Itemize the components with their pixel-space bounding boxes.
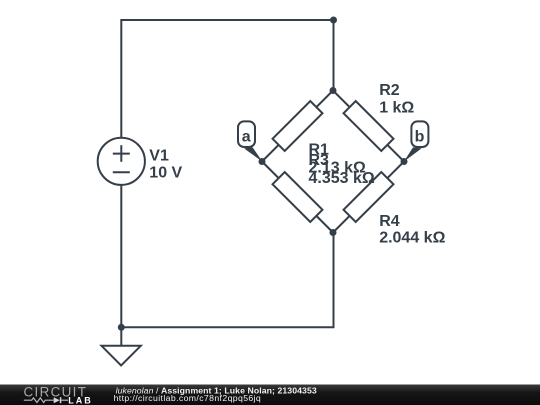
svg-text:a: a [242, 129, 251, 146]
svg-text:b: b [415, 129, 425, 146]
svg-text:LAB: LAB [68, 396, 93, 405]
svg-text:R2: R2 [379, 82, 400, 99]
svg-text:10 V: 10 V [149, 164, 182, 181]
svg-text:R3: R3 [309, 152, 330, 169]
svg-text:R4: R4 [379, 213, 400, 230]
svg-text:2.044 kΩ: 2.044 kΩ [379, 230, 445, 247]
svg-text:V1: V1 [149, 148, 169, 165]
svg-text:4.353 kΩ: 4.353 kΩ [309, 170, 375, 187]
svg-text:1 kΩ: 1 kΩ [379, 99, 414, 116]
svg-text:http://circuitlab.com/c78nf2qp: http://circuitlab.com/c78nf2qpq56jq [114, 393, 262, 403]
